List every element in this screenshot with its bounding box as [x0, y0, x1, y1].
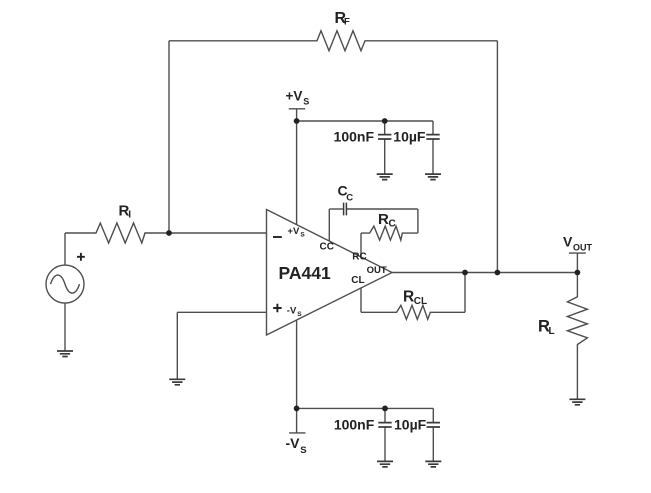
svg-text:S: S — [300, 231, 305, 238]
svg-text:I: I — [128, 210, 131, 221]
svg-text:S: S — [300, 445, 306, 456]
svg-text:CL: CL — [414, 296, 427, 307]
svg-text:+V: +V — [288, 226, 301, 237]
svg-text:S: S — [303, 97, 309, 107]
svg-text:-V: -V — [286, 435, 301, 451]
svg-text:S: S — [297, 311, 302, 318]
svg-text:V: V — [563, 233, 573, 249]
svg-text:100nF: 100nF — [334, 416, 375, 432]
svg-text:CC: CC — [320, 241, 334, 252]
svg-text:-V: -V — [287, 306, 297, 317]
svg-text:OUT: OUT — [367, 265, 387, 276]
svg-text:PA441: PA441 — [279, 263, 331, 283]
svg-text:CL: CL — [351, 275, 364, 286]
svg-text:OUT: OUT — [573, 242, 593, 252]
svg-text:F: F — [344, 17, 350, 28]
svg-text:C: C — [389, 219, 396, 230]
svg-text:RC: RC — [352, 252, 366, 263]
svg-text:100nF: 100nF — [334, 128, 375, 144]
svg-text:C: C — [346, 192, 353, 203]
svg-text:R: R — [378, 211, 389, 228]
svg-text:+V: +V — [286, 89, 303, 104]
svg-text:R: R — [403, 289, 414, 306]
svg-text:10µF: 10µF — [393, 128, 426, 144]
svg-text:10µF: 10µF — [394, 416, 427, 432]
svg-text:L: L — [549, 326, 555, 337]
